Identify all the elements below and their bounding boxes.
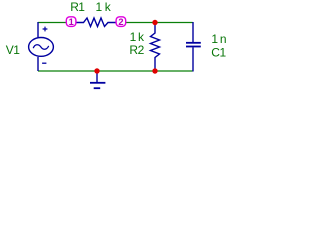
svg-text:1n: 1n	[211, 32, 228, 46]
svg-text:1: 1	[69, 17, 74, 27]
svg-text:C1: C1	[211, 46, 226, 60]
svg-text:2: 2	[118, 17, 123, 27]
svg-text:R2: R2	[129, 43, 144, 57]
svg-text:R1: R1	[70, 0, 85, 14]
svg-text:1k: 1k	[130, 30, 146, 44]
svg-text:1k: 1k	[96, 0, 114, 14]
svg-text:V1: V1	[6, 43, 21, 57]
